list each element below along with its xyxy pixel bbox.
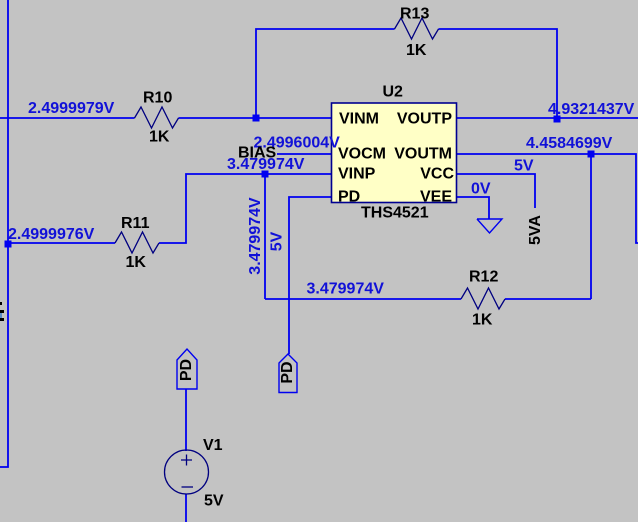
svg-text:2.4999979V: 2.4999979V (28, 100, 115, 117)
junction node VOUTM / R12 (588, 151, 595, 158)
label R10 (143, 90, 172, 107)
node voltage 5V (VCC) (514, 158, 534, 175)
pin VINP (338, 166, 376, 183)
voltage source V1 (165, 450, 209, 494)
svg-text:VEE: VEE (420, 189, 452, 206)
svg-text:1K: 1K (126, 254, 147, 271)
node voltage 0V (VEE) (471, 181, 491, 198)
pin PD (338, 189, 360, 206)
svg-text:5V: 5V (204, 493, 224, 510)
node BIAS (238, 145, 277, 162)
node voltage 2.4999979V (28, 100, 115, 117)
op-amp U2 body (332, 103, 457, 203)
svg-text:3.479974V: 3.479974V (307, 281, 385, 298)
resistor R12 (461, 288, 505, 309)
pin VOUTM (394, 146, 452, 163)
wire VOUTM net (457, 154, 638, 243)
node voltage 2.4996004V (254, 135, 341, 152)
svg-text:THS4521: THS4521 (361, 205, 429, 222)
svg-text:0V: 0V (471, 181, 491, 198)
svg-text:4.4584699V: 4.4584699V (526, 135, 613, 152)
svg-text:3.479974V: 3.479974V (247, 197, 264, 275)
svg-text:V1: V1 (203, 437, 223, 454)
label R13 (400, 6, 429, 23)
junction node R13 left / VINM (253, 115, 260, 122)
svg-text:R11: R11 (121, 215, 150, 232)
label R12 (469, 269, 498, 286)
svg-text:VOUTM: VOUTM (394, 146, 452, 163)
wire VOCM BIAS stub (277, 153, 331, 155)
node voltage 3.479974V (R12 net) (307, 281, 385, 298)
label THS4521 (361, 205, 429, 222)
node voltage 5V rotated (269, 231, 286, 251)
label PD rotated (right flag) (279, 361, 296, 383)
value 1K (R10) (149, 129, 170, 146)
resistor R13 (395, 18, 439, 39)
wire VINP to R12 vertical (264, 174, 266, 299)
pin VCC (420, 166, 454, 183)
wire R12 to VOUTM vertical (590, 154, 592, 299)
wire R12 net (265, 298, 591, 300)
svg-text:PD: PD (279, 361, 296, 383)
label V1 value 5V (204, 493, 224, 510)
wire V1 to PD flag (185, 389, 187, 451)
svg-text:1K: 1K (472, 312, 493, 329)
wire VCC net (457, 174, 535, 208)
pin VOUTP (397, 111, 452, 128)
svg-text:1K: 1K (149, 129, 170, 146)
svg-text:5V: 5V (269, 231, 286, 251)
node voltage 2.4999976V (8, 226, 95, 243)
value 1K (R13) (406, 42, 427, 59)
svg-text:R12: R12 (469, 269, 498, 286)
wire VINM net (0, 117, 331, 119)
svg-text:VCC: VCC (420, 166, 454, 183)
net label 5VA rotated (527, 215, 544, 245)
value 1K (R12) (472, 312, 493, 329)
junction node R13 right / VOUTP (554, 116, 561, 123)
label V1 (203, 437, 223, 454)
pin VEE (420, 189, 452, 206)
svg-text:3.479974V: 3.479974V (227, 156, 305, 173)
node voltage 3.479974V (VINP) (227, 156, 305, 173)
wire R13 feedback loop top (256, 29, 557, 118)
junction node VINP / R12 (262, 171, 269, 178)
wire PD pin net (289, 197, 331, 354)
resistor R11 (115, 232, 159, 253)
wire R11 net (8, 174, 331, 243)
node voltage 3.479974V rotated (247, 197, 264, 275)
label PD rotated (left flag) (178, 359, 195, 381)
label U2 (383, 84, 404, 101)
pin VINM (339, 111, 379, 128)
svg-text:PD: PD (338, 189, 360, 206)
node voltage 4.9321437V (548, 101, 635, 118)
junction node at left bus / R11 (5, 241, 12, 248)
wire left vertical bus (0, 0, 8, 467)
svg-text:R10: R10 (143, 90, 172, 107)
pin VOCM (338, 146, 386, 163)
svg-text:R13: R13 (400, 6, 429, 23)
wire VEE net (457, 197, 489, 219)
svg-text:PD: PD (178, 359, 195, 381)
svg-text:VOUTP: VOUTP (397, 111, 452, 128)
svg-text:5V: 5V (514, 158, 534, 175)
clipped label fragment at left edge (0, 302, 4, 321)
wire VOUTP net (457, 117, 638, 119)
svg-text:2.4999976V: 2.4999976V (8, 226, 95, 243)
value 1K (R11) (126, 254, 147, 271)
PD flag right (to PD pin) (279, 354, 297, 393)
PD flag left (to V1) (177, 349, 197, 389)
resistor R10 (135, 107, 179, 128)
svg-text:VINM: VINM (339, 111, 379, 128)
svg-text:U2: U2 (383, 84, 404, 101)
svg-text:5VA: 5VA (527, 215, 544, 245)
label R11 (121, 215, 150, 232)
node voltage 4.4584699V (526, 135, 613, 152)
svg-text:VOCM: VOCM (338, 146, 386, 163)
svg-text:1K: 1K (406, 42, 427, 59)
ground (477, 219, 502, 233)
wire V1 bottom (185, 494, 187, 522)
svg-text:4.9321437V: 4.9321437V (548, 101, 635, 118)
svg-text:VINP: VINP (338, 166, 376, 183)
